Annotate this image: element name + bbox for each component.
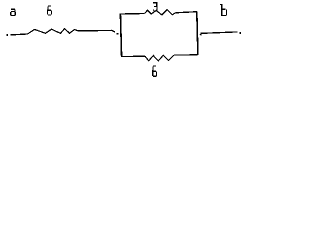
resistor R3 zigzag (6 ohm, bottom branch) bbox=[145, 55, 174, 61]
wire: top rail right segment bbox=[175, 12, 197, 13]
value label 6 for R1 bbox=[47, 6, 52, 16]
value label 3 for R2 bbox=[153, 2, 158, 11]
wire from R1 to parallel block bbox=[78, 30, 115, 32]
terminal dot b bbox=[240, 32, 242, 34]
terminal dot a bbox=[6, 34, 8, 36]
value label 6 for R3 bbox=[152, 65, 157, 77]
node b label bbox=[220, 4, 227, 16]
wire: right vertical bar of parallel block bbox=[197, 12, 198, 55]
wire: left vertical bar of parallel block bbox=[120, 13, 121, 57]
wire from parallel block to b bbox=[200, 32, 237, 34]
wire: bottom rail left segment bbox=[121, 55, 145, 57]
wire: bottom rail right segment bbox=[174, 54, 198, 56]
wire: top rail left segment bbox=[121, 13, 145, 16]
junction tick at left bar bbox=[117, 33, 119, 35]
wire from a to R1 bbox=[11, 33, 28, 36]
junction tick at right bar bbox=[200, 34, 201, 36]
node a label bbox=[10, 9, 16, 16]
resistor R2 zigzag (3 ohm, top branch) bbox=[145, 10, 176, 15]
resistor R1 zigzag (6 ohm, series) bbox=[28, 29, 79, 34]
